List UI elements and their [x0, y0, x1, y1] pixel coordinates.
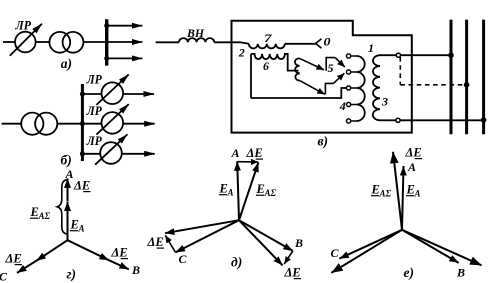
phasor diagram g: vector EB: [68, 240, 109, 260]
svg-text:ΑΣ: ΑΣ: [38, 211, 51, 221]
wiper arm lower lead: [325, 83, 333, 94]
svg-text:1: 1: [368, 41, 374, 55]
regulator LR1 arrow: [10, 24, 42, 56]
phasor diagram d: vector EC: [176, 220, 240, 252]
regulator LR4 circle: [100, 142, 122, 164]
phasor diagram e: vector EB: [402, 230, 459, 263]
node: branch 3 junction: [80, 151, 85, 156]
node: dot on bus B: [464, 82, 470, 88]
svg-text:B: B: [456, 266, 465, 280]
svg-text:ΑΣ: ΑΣ: [379, 189, 392, 199]
node: dot on bus A: [448, 52, 454, 58]
enclosure box of regulator v: [232, 21, 412, 133]
feeder arrow b2: [83, 123, 155, 125]
svg-text:A: A: [65, 167, 74, 181]
phasor diagram e: vector EA: [402, 166, 404, 230]
wiper arm upper arrow to tap 2: [335, 58, 345, 67]
phasor diagram g: vector EA: [67, 202, 69, 241]
svg-text:в): в): [318, 133, 329, 148]
svg-text:2: 2: [238, 45, 245, 59]
brace EAS: [57, 180, 66, 234]
wire: diagram a feed line: [3, 41, 15, 43]
svg-text:A: A: [78, 224, 85, 234]
phasor diagram g: vector EC: [36, 240, 67, 261]
svg-text:A: A: [231, 146, 240, 160]
svg-text:A: A: [227, 188, 234, 198]
regulator LR3 circle: [102, 112, 124, 134]
tap stubs: [351, 56, 357, 121]
wire: terminal 1 to bus A: [401, 54, 452, 56]
phasor diagram e: vector EBS: [402, 230, 482, 265]
transformer T1 secondary circle: [63, 32, 84, 53]
terminal S (winding 3 bottom): [396, 118, 400, 122]
wire: input to circuit v: [156, 41, 179, 43]
svg-text:а): а): [61, 56, 72, 71]
phasor diagram g: vector dEC: [17, 260, 37, 273]
node: branch 1 junction: [80, 92, 85, 97]
transformer T1 primary circle: [49, 32, 70, 53]
regulator LR4 arrow: [95, 134, 127, 164]
svg-text:5: 5: [328, 61, 334, 75]
svg-text:б): б): [61, 153, 72, 168]
phasor diagram d: vector EBS: [239, 220, 283, 265]
regulator LR1 circle: [15, 32, 36, 53]
svg-text:ЛР: ЛР: [86, 73, 102, 87]
wire: terminal S to bus C: [400, 119, 484, 121]
feeder arrow b3: [83, 153, 155, 155]
svg-text:ΑΣ: ΑΣ: [264, 188, 277, 198]
wire: winding 3 bottom lead: [380, 119, 396, 121]
svg-text:E: E: [371, 183, 380, 197]
wire: T1 to bus: [83, 41, 105, 43]
contact 0 chevron: [316, 39, 322, 48]
busbar A: [450, 20, 453, 135]
tap terminal 3 of winding 4: [347, 86, 351, 90]
phasor diagram d: vector EB: [239, 220, 293, 251]
phasor diagram d: vector dEB: [284, 251, 293, 264]
transformer T2 primary circle: [21, 113, 43, 135]
svg-text:ΔE: ΔE: [147, 235, 164, 249]
wire: bottom rail to tap 3: [251, 88, 347, 98]
regulator LR2 arrow: [96, 75, 128, 105]
svg-text:ΔE: ΔE: [246, 146, 263, 160]
svg-text:E: E: [70, 218, 79, 232]
tap terminal 5 of winding 4: [347, 119, 351, 123]
svg-text:0: 0: [324, 35, 331, 49]
phasor diagram e: vector ECS: [331, 230, 402, 273]
svg-text:E: E: [30, 205, 39, 219]
wire: VN to box terminal 2: [214, 42, 249, 44]
svg-text:д): д): [231, 255, 242, 270]
dashed tie line: [400, 57, 466, 85]
svg-text:E: E: [219, 182, 228, 196]
winding 4: [357, 56, 365, 121]
terminal 1 (winding 3 top): [396, 53, 400, 57]
wiper arm upper feed: [299, 58, 324, 70]
phasor diagram g: vector dEA: [67, 178, 69, 201]
node: dot on bus C: [481, 117, 487, 123]
wire: diagram b feed line: [2, 123, 22, 125]
svg-text:ΔE: ΔE: [111, 246, 128, 260]
feeder arrow b1: [83, 93, 154, 95]
feeder arrow a1: [107, 25, 143, 27]
svg-text:ΔE: ΔE: [5, 252, 22, 266]
svg-text:е): е): [404, 265, 415, 280]
busbar C: [482, 20, 485, 135]
regulator LR2 circle: [102, 82, 124, 104]
svg-text:ΔE: ΔE: [73, 179, 90, 193]
svg-text:B: B: [294, 236, 303, 250]
svg-text:ΔE: ΔE: [284, 266, 301, 280]
svg-text:ЛР: ЛР: [15, 19, 32, 33]
svg-text:C: C: [179, 252, 188, 266]
phasor diagram d: vector dEA: [237, 161, 258, 163]
phasor diagram d: vector EA: [237, 161, 239, 220]
svg-text:6: 6: [263, 59, 269, 73]
wiper arm lower feed: [300, 81, 325, 95]
winding 7: [249, 44, 285, 49]
wire: LR1 to transformer T1: [36, 41, 50, 43]
winding 5: [295, 58, 300, 80]
svg-text:4: 4: [339, 99, 346, 113]
phasor diagram g: vector dEB: [108, 260, 129, 270]
svg-text:C: C: [0, 270, 8, 283]
regulator LR3 arrow: [96, 104, 128, 134]
tap terminal 4 of winding 4: [347, 102, 351, 106]
feeder arrow a3: [107, 57, 143, 59]
wire: winding 7 to contact 0: [285, 43, 316, 45]
svg-text:7: 7: [264, 31, 273, 45]
busbar B: [465, 20, 468, 135]
phasor diagram e: vector EC: [339, 230, 402, 259]
svg-text:B: B: [131, 263, 140, 277]
svg-text:ЛР: ЛР: [86, 134, 102, 148]
svg-text:ВН: ВН: [186, 28, 205, 40]
svg-text:A: A: [414, 189, 421, 199]
winding 3: [373, 55, 380, 120]
wiper arm lower arrow to tap 2: [333, 73, 344, 83]
svg-text:C: C: [331, 246, 340, 260]
node: bus a junction dots: [104, 23, 109, 28]
svg-text:E: E: [406, 183, 415, 197]
svg-text:г): г): [67, 267, 76, 282]
phasor diagram d: vector ECS: [165, 220, 239, 233]
winding 6: [251, 54, 299, 71]
svg-text:3: 3: [381, 94, 388, 108]
svg-text:A: A: [407, 160, 416, 174]
wiper arm upper lead: [326, 58, 335, 71]
inductor VN: [179, 38, 214, 42]
phasor diagram d: vector dEC: [165, 235, 175, 252]
busbar of diagram b: [81, 84, 84, 161]
node: branch 2 junction: [80, 121, 85, 126]
wire: T2 to bus: [57, 123, 81, 125]
phasor diagram e: vector EAS: [393, 152, 402, 230]
svg-text:E: E: [256, 182, 265, 196]
tap terminal 2 of winding 4: [347, 70, 351, 74]
phasor diagram d: vector EAS: [239, 163, 258, 221]
transformer T2 secondary circle: [35, 113, 57, 135]
svg-text:ЛР: ЛР: [86, 104, 102, 118]
tap terminal 1 of winding 4: [347, 54, 351, 58]
wire: winding 6 left leg: [250, 54, 252, 98]
wire: winding 3 top lead: [380, 54, 396, 56]
svg-text:ΔE: ΔE: [405, 146, 422, 160]
busbar of diagram a: [105, 19, 108, 65]
feeder arrow a2: [107, 41, 143, 43]
